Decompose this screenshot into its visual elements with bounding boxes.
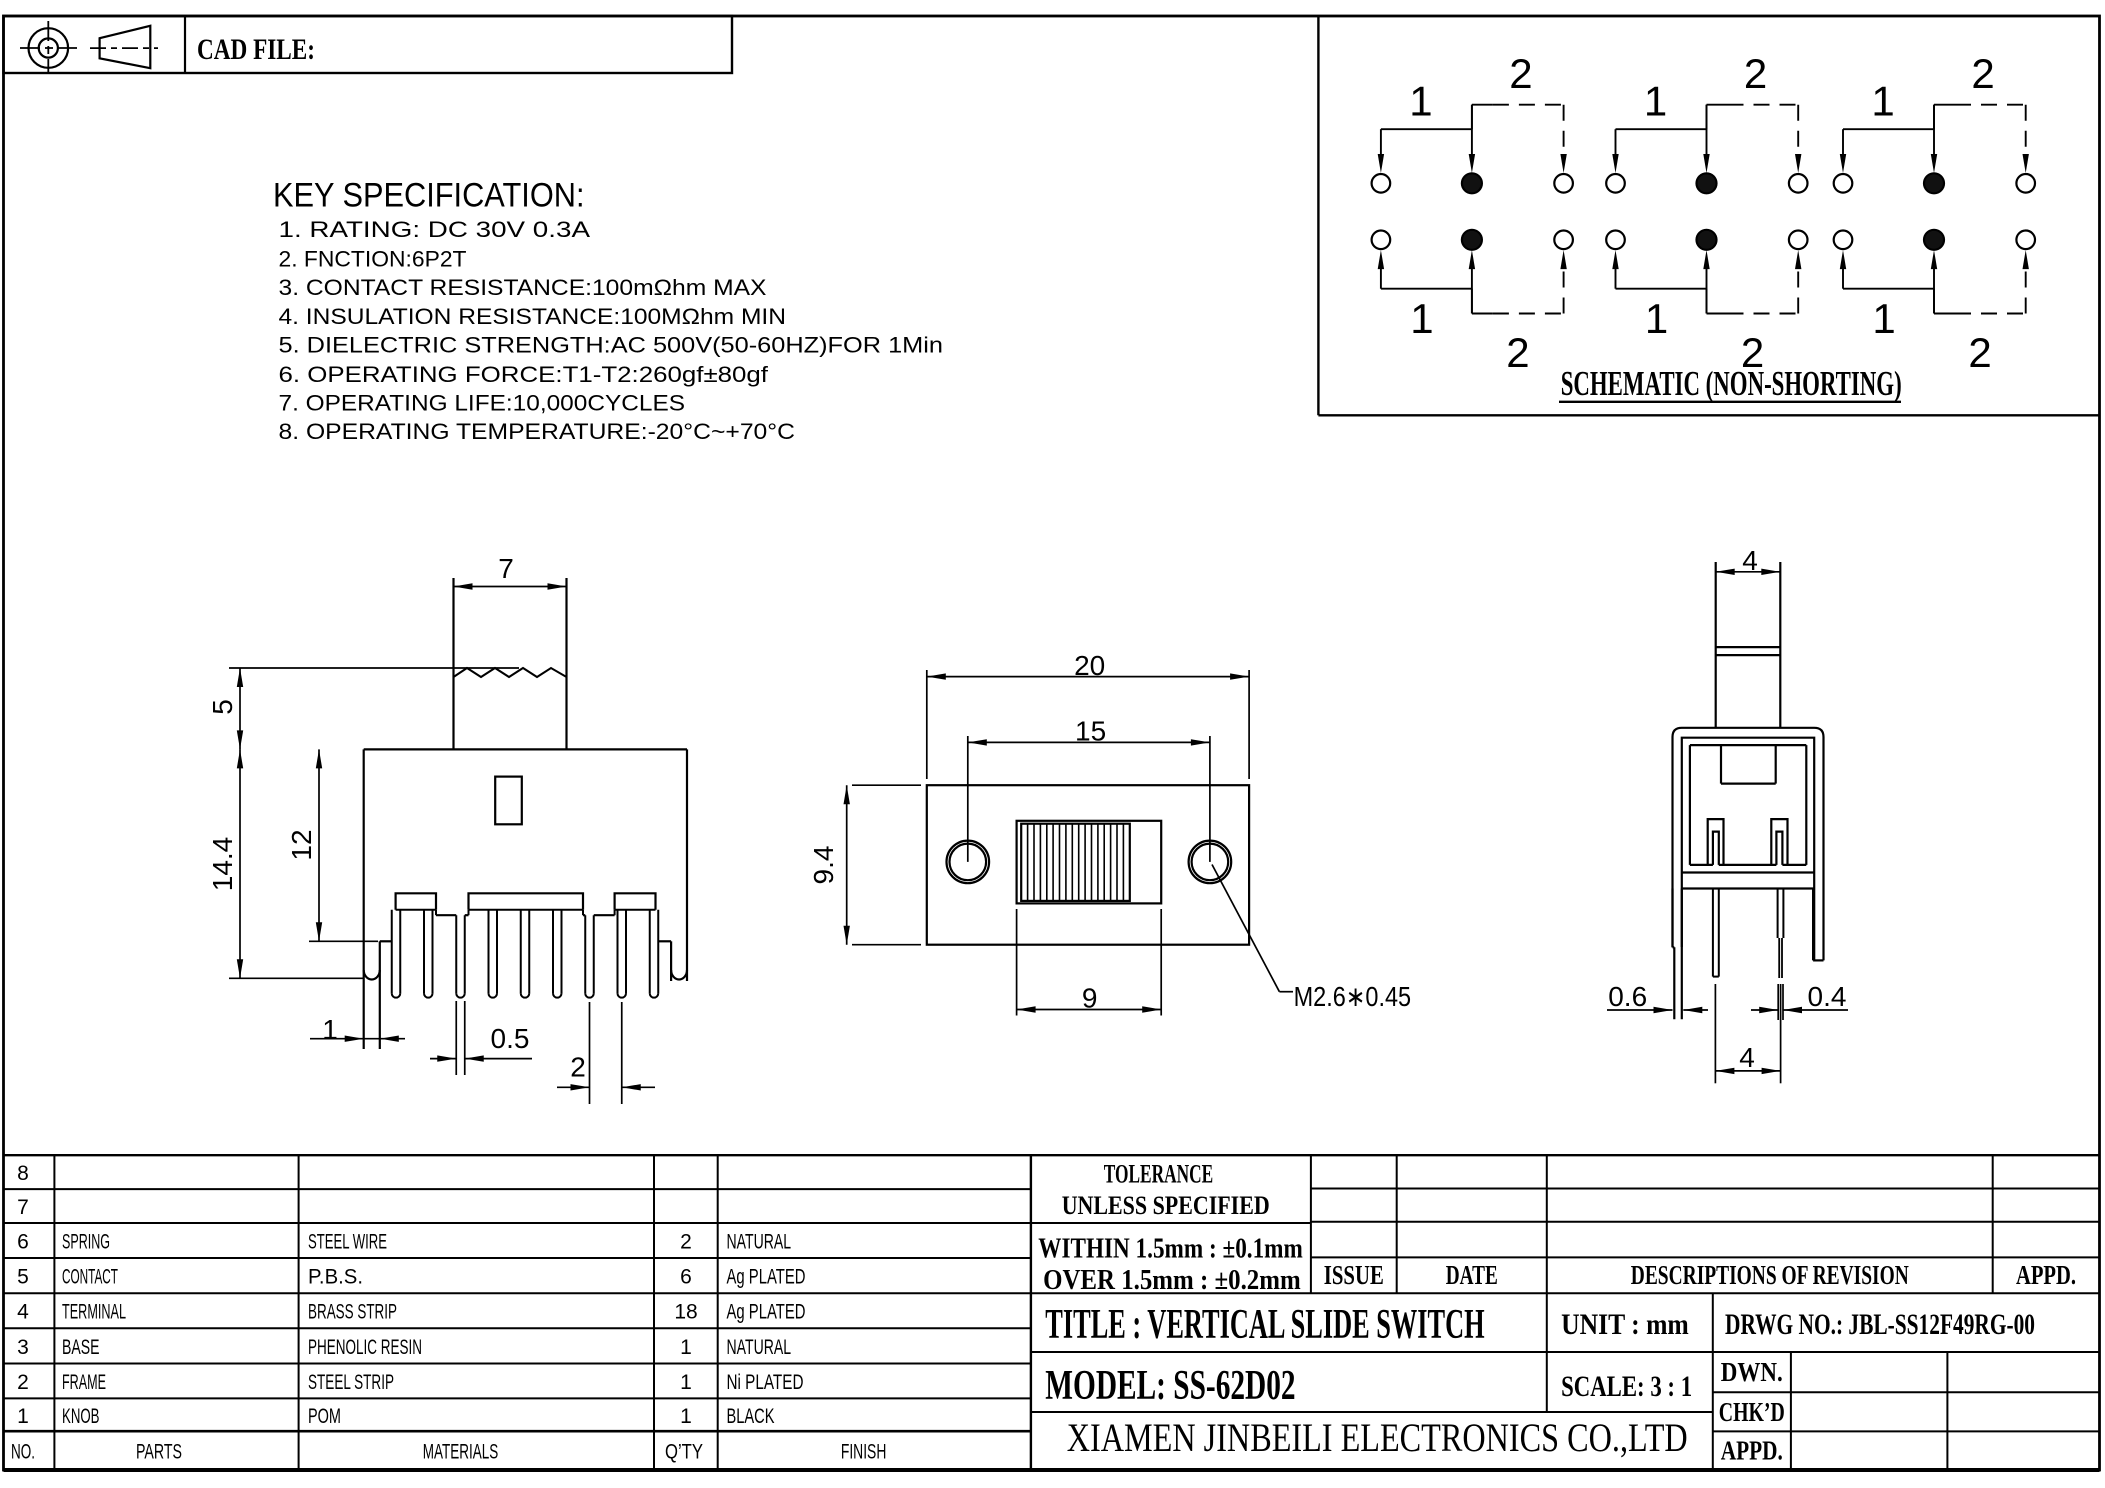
svg-text:APPD.: APPD. (2016, 1260, 2076, 1290)
svg-text:FINISH: FINISH (841, 1441, 887, 1464)
first-angle projection symbol: circle view (29, 28, 69, 68)
svg-text:2. FNCTION:6P2T: 2. FNCTION:6P2T (279, 246, 467, 271)
svg-text:15: 15 (1075, 716, 1106, 747)
front view: terminal block right (615, 893, 656, 910)
terminal pin 5 (front view) (520, 910, 522, 994)
svg-text:BASE: BASE (62, 1336, 100, 1359)
svg-text:WITHIN 1.5mm : ±0.1mm: WITHIN 1.5mm : ±0.1mm (1038, 1234, 1303, 1265)
dimension 1 (frame leg width) (310, 1038, 405, 1040)
svg-text:18: 18 (674, 1301, 697, 1324)
pole 2: wire bottom position 2 (dashed) (1707, 313, 1728, 315)
side view: metal frame outer (1673, 728, 1824, 961)
svg-text:5: 5 (17, 1266, 29, 1289)
svg-text:6: 6 (17, 1231, 29, 1254)
svg-text:Q’TY: Q’TY (665, 1441, 703, 1464)
svg-text:3: 3 (17, 1336, 29, 1359)
svg-text:2: 2 (1968, 329, 1991, 376)
svg-text:1: 1 (17, 1405, 29, 1428)
svg-text:P.B.S.: P.B.S. (308, 1266, 363, 1289)
svg-text:MATERIALS: MATERIALS (423, 1441, 499, 1464)
svg-text:STEEL STRIP: STEEL STRIP (308, 1371, 394, 1394)
pole 1: wire bottom position 1 (solid) (1380, 263, 1382, 289)
side view: metal frame inner (1682, 738, 1814, 961)
terminal pin 9 (front view) (649, 910, 651, 994)
svg-text:MODEL: SS-62D02: MODEL: SS-62D02 (1045, 1363, 1295, 1409)
svg-text:9: 9 (1082, 983, 1098, 1014)
front view: actuator knob (452, 578, 454, 749)
svg-text:1: 1 (1410, 295, 1433, 342)
svg-text:PARTS: PARTS (136, 1441, 182, 1464)
terminal pin 6 (front view) (552, 910, 554, 994)
side view: frame bottom band (1682, 871, 1814, 873)
parts table: row lines (4, 1188, 1031, 1190)
svg-text:6: 6 (680, 1266, 692, 1289)
svg-text:PHENOLIC RESIN: PHENOLIC RESIN (308, 1336, 422, 1359)
svg-text:SCALE: 3 : 1: SCALE: 3 : 1 (1561, 1370, 1692, 1403)
svg-text:7. OPERATING LIFE:10,000CYCL: 7. OPERATING LIFE:10,000CYCLES (279, 390, 686, 415)
top view: slider window opening (1017, 821, 1162, 904)
pole 3: bottom row contacts (1834, 231, 1853, 250)
pole 3: wire top position 2 (dashed) (1934, 104, 1955, 106)
front view: switch body outline (364, 748, 687, 750)
leader M2.6*0.45 (thread callout) (1212, 865, 1279, 992)
parts table: column lines (53, 1155, 55, 1470)
side view: right frame leg (1812, 889, 1814, 961)
svg-text:CONTACT: CONTACT (62, 1266, 118, 1289)
svg-text:5: 5 (207, 699, 238, 715)
side view: actuator knob (1715, 562, 1717, 728)
svg-text:DATE: DATE (1446, 1260, 1498, 1290)
svg-text:ISSUE: ISSUE (1324, 1260, 1384, 1290)
dimension 0.5 (pin thickness) (455, 1001, 457, 1075)
pole 1: top row contacts (position 1 common path) (1372, 174, 1391, 193)
pole 1: bottom row contacts (1372, 231, 1391, 250)
side view: contact slot left (1708, 819, 1724, 865)
dimension 20 (body length) (926, 670, 928, 779)
title row (1546, 1293, 1548, 1412)
svg-text:2: 2 (1971, 50, 1994, 97)
svg-text:CHK’D: CHK’D (1719, 1397, 1785, 1427)
svg-text:2: 2 (1509, 50, 1532, 97)
dimension 2 (pin pitch) (589, 1002, 591, 1104)
front view: base step between blocks right (583, 914, 585, 916)
pole 3: top row contacts (position 1 common path) (1834, 174, 1853, 193)
svg-text:BLACK: BLACK (727, 1405, 775, 1428)
svg-text:Ag PLATED: Ag PLATED (727, 1266, 806, 1289)
svg-text:DWN.: DWN. (1721, 1357, 1783, 1387)
pole 1: wire bottom position 2 (dashed) (1472, 313, 1493, 315)
side view: knob shaft recess (1720, 745, 1722, 784)
svg-text:APPD.: APPD. (1721, 1436, 1783, 1466)
svg-text:FRAME: FRAME (62, 1371, 106, 1394)
pole 2: wire top position 1 (solid) (1615, 129, 1617, 160)
svg-text:5. DIELECTRIC STRENGTH:AC 5: 5. DIELECTRIC STRENGTH:AC 500V(50-60HZ)F… (279, 333, 944, 358)
front view: slider window (495, 777, 522, 825)
svg-text:M2.6∗0.45: M2.6∗0.45 (1294, 981, 1412, 1012)
dimension 14.4 (overall height) (239, 749, 241, 978)
pole 2: wire bottom position 1 (solid) (1615, 263, 1617, 289)
dimension 5 (knob height) (229, 667, 519, 669)
pole 3: wire bottom position 2 (dashed) (1934, 313, 1955, 315)
title block: top separator line (4, 1154, 2100, 1156)
svg-text:UNIT : mm: UNIT : mm (1561, 1308, 1689, 1341)
svg-text:TITLE : VERTICAL SLIDE SWI: TITLE : VERTICAL SLIDE SWITCH (1045, 1302, 1484, 1348)
svg-text:4: 4 (1739, 1042, 1755, 1073)
front view: left frame leg (379, 941, 381, 1049)
top view: mounting hole left (M2.6) (947, 841, 990, 884)
svg-text:POM: POM (308, 1405, 341, 1428)
svg-text:12: 12 (286, 829, 317, 860)
svg-text:1: 1 (1872, 295, 1895, 342)
svg-text:DRWG NO.: JBL-SS12F49RG-00: DRWG NO.: JBL-SS12F49RG-00 (1725, 1308, 2035, 1341)
svg-text:DESCRIPTIONS OF REVISION: DESCRIPTIONS OF REVISION (1631, 1260, 1909, 1290)
tolerance box (1031, 1222, 1311, 1224)
terminal pin 4 (front view) (488, 910, 490, 994)
signature rows DWN/CHKD/APPD (1713, 1351, 2100, 1353)
dimension 0.6 (frame leg thickness) (1607, 1009, 1673, 1011)
side view: terminal pin row 2 (1777, 889, 1779, 939)
terminal pin 1 (front view) (391, 910, 393, 994)
svg-text:1: 1 (1409, 78, 1432, 125)
svg-text:4: 4 (1742, 545, 1758, 576)
svg-text:SPRING: SPRING (62, 1231, 110, 1254)
top view: knurl lines (1027, 824, 1029, 901)
svg-text:20: 20 (1074, 650, 1105, 681)
svg-text:2: 2 (1741, 329, 1764, 376)
side view: contact slot right (1771, 819, 1787, 865)
first-angle projection symbol: cone view (100, 26, 151, 68)
pole 3: wire top position 1 (solid) (1842, 129, 1844, 160)
dimension 15 (hole spacing) (967, 736, 969, 862)
dimension 9 (window length) (1016, 909, 1018, 1016)
svg-text:3. CONTACT RESISTANCE:100mΩh: 3. CONTACT RESISTANCE:100mΩhm MAX (279, 275, 767, 300)
svg-text:0.6: 0.6 (1608, 981, 1647, 1012)
pole 2: bottom row contacts (1606, 231, 1625, 250)
pole 3: wire bottom position 1 (solid) (1842, 263, 1844, 289)
svg-text:XIAMEN JINBEILI ELECTRONICS CO: XIAMEN JINBEILI ELECTRONICS CO.,LTD (1067, 1415, 1688, 1460)
front view: terminal block left (396, 893, 436, 910)
svg-text:4. INSULATION RESISTANCE:100: 4. INSULATION RESISTANCE:100MΩhm MIN (279, 304, 787, 329)
svg-text:7: 7 (17, 1196, 29, 1219)
side view: body (base) outline (1690, 744, 1806, 746)
side view: left frame leg (1671, 889, 1673, 948)
top view: knob (knurled) (1021, 824, 1130, 901)
front view: knob break line (zigzag) (454, 668, 567, 677)
svg-text:Ag PLATED: Ag PLATED (727, 1301, 806, 1324)
pole 1: wire top position 2 (dashed) (1472, 104, 1493, 106)
terminal pin 7 (front view) (584, 915, 586, 993)
svg-text:TOLERANCE: TOLERANCE (1104, 1159, 1214, 1188)
terminal pin 8 (front view) (617, 910, 619, 994)
svg-text:1: 1 (680, 1405, 692, 1428)
svg-text:KNOB: KNOB (62, 1405, 100, 1428)
svg-text:BRASS STRIP: BRASS STRIP (308, 1301, 397, 1324)
pole 2: wire top position 2 (dashed) (1707, 104, 1728, 106)
dimension 12 (body height) (318, 749, 320, 941)
svg-text:4: 4 (17, 1301, 29, 1324)
dimension 4 (knob thickness, top) (1716, 571, 1781, 573)
dimension 4 (pin row spacing, bottom) (1714, 984, 1716, 1083)
svg-text:STEEL WIRE: STEEL WIRE (308, 1231, 387, 1254)
svg-text:0.4: 0.4 (1808, 981, 1847, 1012)
svg-text:2: 2 (570, 1051, 586, 1082)
front view: terminal block middle (469, 893, 584, 910)
svg-text:1: 1 (680, 1336, 692, 1359)
svg-text:2: 2 (17, 1371, 29, 1394)
svg-text:1: 1 (680, 1371, 692, 1394)
svg-text:1. RATING: DC 30V 0.3A: 1. RATING: DC 30V 0.3A (279, 217, 591, 242)
pole 1: wire top position 1 (solid) (1380, 129, 1382, 160)
CAD FILE title box (4, 16, 733, 73)
front view: base step connectors (435, 910, 437, 915)
svg-text:NO.: NO. (11, 1441, 35, 1464)
svg-text:2: 2 (1506, 329, 1529, 376)
svg-text:2: 2 (680, 1231, 692, 1254)
svg-text:UNLESS SPECIFIED: UNLESS SPECIFIED (1062, 1191, 1270, 1220)
pole 2: top row contacts (position 1 common path) (1606, 174, 1625, 193)
svg-text:1: 1 (1644, 78, 1667, 125)
side view: body bottom line (1690, 864, 1713, 866)
svg-text:KEY SPECIFICATION:: KEY SPECIFICATION: (273, 177, 585, 215)
svg-text:1: 1 (1871, 78, 1894, 125)
svg-text:8. OPERATING TEMPERATURE:-20: 8. OPERATING TEMPERATURE:-20°C~+70°C (279, 419, 796, 444)
top view: body outline (927, 785, 1249, 945)
svg-text:CAD FILE:: CAD FILE: (197, 33, 315, 66)
svg-text:14.4: 14.4 (207, 837, 238, 892)
svg-text:NATURAL: NATURAL (727, 1336, 792, 1359)
model row (1031, 1411, 1713, 1413)
svg-text:0.5: 0.5 (491, 1023, 530, 1054)
svg-text:7: 7 (498, 553, 514, 584)
svg-text:6. OPERATING FORCE:T1-T2:260: 6. OPERATING FORCE:T1-T2:260gf±80gf (279, 362, 770, 387)
front view: base step between blocks left (436, 914, 456, 916)
svg-text:1: 1 (1645, 295, 1668, 342)
svg-text:8: 8 (17, 1162, 29, 1185)
revision table (1310, 1155, 1312, 1293)
svg-text:9.4: 9.4 (808, 846, 839, 885)
dimension 9.4 (body width) (852, 784, 921, 786)
svg-text:NATURAL: NATURAL (727, 1231, 792, 1254)
front view: base bottom step right (658, 940, 671, 942)
schematic box (1317, 16, 1319, 415)
svg-text:2: 2 (1744, 50, 1767, 97)
side view: terminal pin row 1 (1712, 889, 1714, 977)
front view: right frame leg (670, 941, 672, 981)
terminal pin 3 (front view) (455, 915, 457, 993)
svg-text:Ni PLATED: Ni PLATED (727, 1371, 804, 1394)
bottom border thick (4, 1468, 2100, 1472)
dimension 7 (knob width) (454, 586, 567, 588)
dimension 0.4 (pin thickness, side) (1777, 984, 1779, 1020)
svg-text:TERMINAL: TERMINAL (62, 1301, 126, 1324)
svg-text:1: 1 (322, 1014, 338, 1045)
terminal pin 2 (front view) (423, 910, 425, 994)
svg-text:OVER 1.5mm : ±0.2mm: OVER 1.5mm : ±0.2mm (1043, 1265, 1301, 1296)
front view: base bottom step left (380, 940, 392, 942)
top view: mounting hole right (M2.6) (1189, 841, 1232, 884)
svg-text:SCHEMATIC (NON-SHORTING): SCHEMATIC (NON-SHORTING) (1561, 364, 1902, 403)
